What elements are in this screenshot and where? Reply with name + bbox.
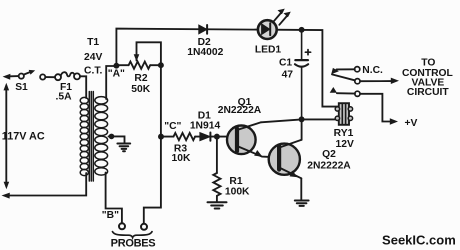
wire AC hot input with arrow	[3, 74, 19, 80]
svg-text:24V: 24V	[84, 52, 102, 63]
wire C net vertical down to probes	[144, 65, 161, 223]
svg-text:12V: 12V	[336, 139, 354, 150]
node C	[159, 135, 163, 139]
svg-text:PROBES: PROBES	[111, 237, 156, 249]
resistor R3	[161, 133, 200, 140]
pole 2 contact line	[337, 92, 355, 94]
svg-text:47: 47	[282, 70, 294, 81]
svg-text:100K: 100K	[225, 187, 250, 198]
svg-text:CIRCUIT: CIRCUIT	[407, 87, 449, 98]
transistor Q2	[269, 140, 302, 179]
pole 2 contact circle	[355, 91, 360, 96]
diode D2	[199, 25, 207, 34]
wire node A up and top rail to relay	[116, 29, 338, 107]
wire F1 to transformer primary	[80, 76, 86, 98]
diode D1	[200, 133, 217, 141]
junction top rail / C1	[300, 28, 304, 32]
svg-text:SeekIC.com: SeekIC.com	[382, 232, 456, 247]
wire S1 to F1	[45, 76, 55, 78]
relay pole 2 pivot triangle	[330, 87, 337, 93]
relay coil RY1	[335, 103, 352, 125]
svg-text:"A": "A"	[108, 68, 125, 79]
svg-text:C.T.: C.T.	[84, 65, 102, 76]
svg-text:Q2: Q2	[322, 149, 336, 160]
resistor R1	[213, 137, 220, 202]
wire Q2 collector up to node	[301, 119, 303, 139]
svg-text:N.C.: N.C.	[362, 65, 383, 76]
svg-text:117V AC: 117V AC	[2, 131, 45, 143]
potentiometer R2	[119, 42, 161, 68]
transformer T1 core	[89, 92, 93, 182]
wire secondary top to node A	[106, 66, 116, 99]
svg-text:"B": "B"	[102, 210, 119, 221]
ground under Q2	[295, 201, 309, 206]
relay armature diagonal	[332, 74, 355, 80]
svg-text:S1: S1	[15, 82, 28, 93]
node R2 right	[159, 63, 163, 67]
ground at center tap	[117, 144, 130, 152]
fuse F1	[55, 72, 80, 80]
svg-text:LED1: LED1	[255, 45, 282, 56]
probe tip left	[119, 223, 125, 229]
svg-text:R1: R1	[229, 176, 242, 187]
svg-text:50K: 50K	[131, 84, 150, 95]
svg-text:2N2222A: 2N2222A	[307, 161, 351, 172]
117V AC source arrows	[4, 83, 10, 190]
center tap node	[110, 135, 114, 139]
svg-text:C1: C1	[279, 58, 292, 69]
svg-text:+V: +V	[405, 118, 418, 129]
N.C. contact circle	[355, 67, 360, 72]
capacitor C1	[295, 30, 311, 120]
node A	[114, 64, 118, 68]
LED1	[258, 9, 291, 39]
transformer T1 primary winding	[80, 97, 88, 175]
svg-text:1N914: 1N914	[190, 121, 221, 132]
collector node junction	[300, 117, 304, 121]
wire Q2 emitter down	[300, 178, 302, 199]
node D1/R1/Q1	[215, 135, 219, 139]
svg-text:2N2222A: 2N2222A	[218, 105, 262, 116]
svg-text:.5A: .5A	[55, 92, 72, 103]
wire to control valve with arrow	[360, 78, 399, 84]
svg-text:R2: R2	[134, 73, 147, 84]
wire node to Q1 base	[217, 136, 235, 138]
svg-text:"C": "C"	[164, 121, 181, 132]
switch S1	[19, 70, 46, 80]
ground under R1	[208, 202, 227, 208]
probe tip right	[141, 224, 147, 230]
wire Q1 collector to node	[261, 119, 302, 122]
wire coil bottom to collector node	[302, 118, 339, 120]
wire center tap to ground	[109, 136, 125, 142]
probes brace	[113, 232, 153, 238]
wire secondary bottom to probe B	[106, 173, 122, 224]
wire AC neutral (bottom) with arrow	[2, 173, 87, 199]
svg-text:RY1: RY1	[334, 128, 354, 139]
transistor Q1	[227, 122, 277, 157]
relay N.C. contact line	[337, 68, 355, 70]
contact circle (to valve)	[355, 79, 360, 84]
wire to +V with arrow	[360, 94, 398, 125]
svg-text:T1: T1	[87, 37, 99, 48]
transformer T1 secondary winding	[95, 97, 108, 175]
svg-text:10K: 10K	[172, 153, 191, 164]
relay contact arm (pole 1 pivot)	[331, 68, 339, 74]
svg-text:1N4002: 1N4002	[187, 47, 223, 58]
